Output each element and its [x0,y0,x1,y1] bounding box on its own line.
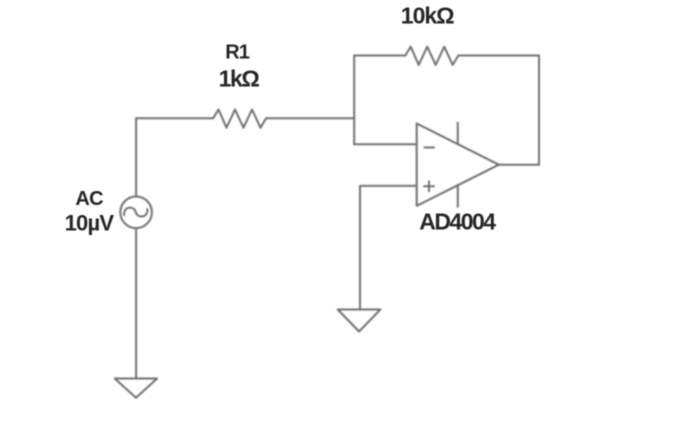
wire op-amp output [499,164,539,166]
wire node A to inverting input [354,143,417,145]
op-amp U1 AD4004 triangle [417,124,499,206]
svg-text:10kΩ: 10kΩ [401,3,454,29]
svg-text:1kΩ: 1kΩ [219,65,260,91]
wire source bottom vertical [135,228,137,378]
svg-text:R1: R1 [225,42,250,64]
svg-text:AC: AC [75,188,103,210]
wire feedback right horizontal [458,55,539,57]
wire source top vertical [135,118,137,196]
svg-text:AD4004: AD4004 [419,209,496,235]
wire feedback right vertical [538,56,540,165]
op-amp minus pin symbol [425,147,435,149]
ground (AC source) [115,379,157,398]
wire feedback left horizontal [354,55,405,57]
wire non-inverting input horizontal [360,185,417,187]
op-amp power pin bottom [457,185,459,207]
op-amp power pin top [457,123,459,144]
AC source V1 circle [120,197,152,229]
ground (non-inverting input) [338,310,381,332]
node A (junction feedback / inverting input) [353,56,355,145]
op-amp plus pin symbol [424,181,434,191]
wire top-left horizontal to R1 [136,117,213,119]
wire R1 to node A [266,117,354,119]
AC source sine wave [124,208,147,217]
svg-text:10µV: 10µV [65,211,115,236]
resistor 10k feedback [405,47,458,65]
resistor R1 [213,110,266,128]
wire non-inverting down to ground [359,186,361,310]
